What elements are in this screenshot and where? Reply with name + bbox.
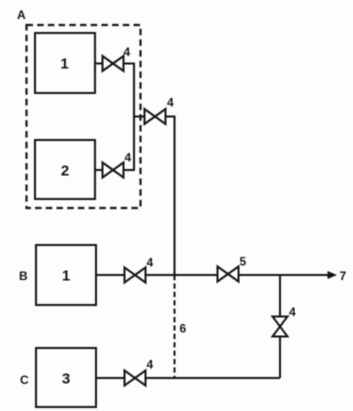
valve V1 (4) bbox=[103, 56, 124, 71]
wire boxC to valve VC bbox=[96, 377, 125, 379]
svg-text:C: C bbox=[20, 373, 29, 387]
wire box2 to valve V2 bbox=[95, 169, 103, 171]
svg-text:7: 7 bbox=[340, 269, 347, 283]
svg-text:5: 5 bbox=[240, 255, 247, 269]
wire boxB to valve VB bbox=[96, 274, 125, 276]
wire valve V4v down to C line bbox=[279, 337, 281, 379]
svg-text:B: B bbox=[19, 269, 28, 283]
outlet arrowhead bbox=[328, 271, 338, 279]
svg-text:2: 2 bbox=[61, 163, 69, 180]
box 2 (unit 2 in A) bbox=[35, 140, 95, 199]
svg-text:4: 4 bbox=[289, 305, 296, 319]
svg-text:1: 1 bbox=[62, 268, 70, 285]
valve VB (4) bbox=[125, 268, 146, 283]
svg-text:6: 6 bbox=[180, 322, 187, 336]
svg-text:A: A bbox=[17, 8, 26, 22]
wire valve V2 up to junction bbox=[124, 117, 135, 171]
wire valve V5 to outlet arrow bbox=[239, 274, 331, 276]
box B1 (unit 1 of B) bbox=[36, 245, 96, 305]
box C3 (unit 3 of C) bbox=[36, 348, 96, 407]
box 1 (unit 1 in A) bbox=[35, 33, 95, 93]
wire junction down to valve V4v bbox=[279, 275, 281, 317]
valve VC (4) bbox=[125, 371, 146, 386]
valve V4v (vertical 4) bbox=[273, 317, 288, 337]
wire valve VB to valve V5 bbox=[146, 274, 218, 276]
svg-text:4: 4 bbox=[167, 96, 174, 110]
wire junction to valve V3 bbox=[134, 116, 145, 118]
wire valve V3 to main vertical bbox=[166, 117, 175, 276]
valve V2 (4) bbox=[103, 163, 124, 178]
svg-text:4: 4 bbox=[147, 358, 154, 372]
dashed line 6 bbox=[174, 275, 176, 378]
svg-text:4: 4 bbox=[124, 45, 131, 59]
svg-text:3: 3 bbox=[62, 371, 70, 388]
dashed enclosure A bbox=[27, 25, 141, 208]
valve V5 (5) bbox=[218, 267, 239, 282]
wire valve VC to right riser bbox=[146, 377, 281, 379]
wire box1 to valve V1 bbox=[95, 63, 103, 65]
svg-text:4: 4 bbox=[125, 151, 132, 165]
valve V3 (4) bbox=[145, 109, 166, 124]
wire valve V1 to junction bbox=[124, 64, 135, 117]
svg-text:4: 4 bbox=[147, 256, 154, 270]
svg-text:1: 1 bbox=[60, 56, 68, 73]
